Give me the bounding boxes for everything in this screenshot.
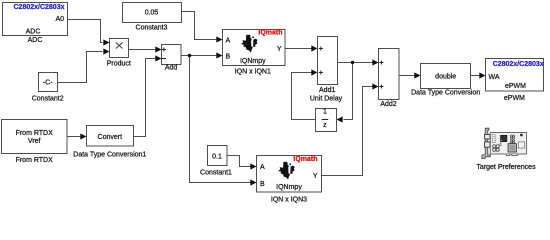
svg-text:From RTDX: From RTDX — [16, 130, 54, 137]
svg-text:A: A — [260, 164, 265, 171]
svg-text:ePWM: ePWM — [504, 95, 525, 102]
svg-text:z: z — [323, 122, 327, 129]
svg-text:Convert: Convert — [98, 134, 123, 141]
svg-text:Data Type Conversion1: Data Type Conversion1 — [73, 152, 146, 159]
svg-text:C2802x/C2803x: C2802x/C2803x — [14, 4, 65, 11]
svg-text:double: double — [435, 73, 456, 80]
svg-text:IQmath: IQmath — [258, 29, 282, 36]
svg-text:Add2: Add2 — [380, 101, 396, 108]
svg-text:-C-: -C- — [43, 79, 53, 86]
svg-text:Y: Y — [277, 46, 282, 53]
svg-text:Data Type Conversion: Data Type Conversion — [411, 90, 480, 97]
svg-text:ADC: ADC — [28, 37, 43, 44]
svg-text:Add1: Add1 — [319, 87, 335, 94]
svg-text:IQN x IQN3: IQN x IQN3 — [271, 196, 307, 203]
svg-text:IQmath: IQmath — [293, 156, 317, 163]
svg-text:Product: Product — [107, 60, 131, 67]
svg-text:ADC: ADC — [26, 29, 41, 36]
svg-text:ePWM: ePWM — [505, 83, 526, 90]
svg-text:Constant3: Constant3 — [136, 25, 168, 32]
svg-text:Unit Delay: Unit Delay — [310, 96, 343, 103]
svg-text:B: B — [226, 54, 231, 61]
svg-text:Target Preferences: Target Preferences — [476, 164, 536, 171]
svg-text:IQN x IQN1: IQN x IQN1 — [235, 69, 271, 76]
svg-text:C2802x/C2803x: C2802x/C2803x — [493, 61, 544, 68]
svg-text:A: A — [226, 37, 231, 44]
svg-text:Vref: Vref — [28, 138, 41, 145]
svg-text:0.1: 0.1 — [212, 154, 222, 161]
svg-text:IQNmpy: IQNmpy — [240, 58, 266, 65]
svg-text:Y: Y — [313, 173, 318, 180]
svg-text:A0: A0 — [55, 16, 64, 23]
svg-text:0.05: 0.05 — [145, 9, 159, 16]
svg-text:Add: Add — [165, 64, 178, 71]
svg-text:Constant1: Constant1 — [200, 169, 232, 176]
svg-text:1: 1 — [323, 109, 327, 116]
svg-text:IQNmpy: IQNmpy — [276, 184, 302, 191]
svg-text:B: B — [260, 181, 265, 188]
svg-text:From RTDX: From RTDX — [16, 157, 54, 164]
svg-text:Constant2: Constant2 — [32, 95, 64, 102]
svg-text:WA: WA — [489, 74, 500, 81]
